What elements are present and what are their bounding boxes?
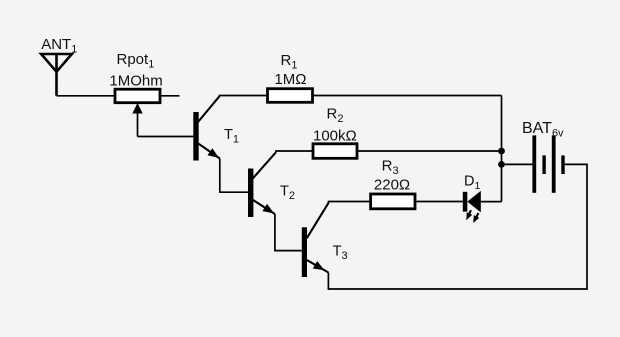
svg-text:T2: T2 <box>280 184 295 203</box>
transistor T1 <box>193 96 220 160</box>
LED D1 light arrows <box>466 210 479 223</box>
antenna ANT1 <box>41 54 72 96</box>
junction dot battery/rail <box>498 161 505 168</box>
svg-text:1MOhm: 1MOhm <box>109 72 162 89</box>
resistor R3 <box>371 194 415 209</box>
svg-text:ANT1: ANT1 <box>41 36 77 56</box>
wire T1 collector to R1 <box>220 95 268 98</box>
wire antenna to Rpot1 <box>57 95 116 97</box>
svg-text:100kΩ: 100kΩ <box>313 127 357 144</box>
wire D1 to right rail <box>481 201 502 203</box>
wire R2 to right rail <box>357 150 502 152</box>
svg-text:R1: R1 <box>281 52 298 72</box>
wire R3 to D1 <box>415 201 463 203</box>
transistor T3 <box>302 203 329 277</box>
wire T2 collector to R2 <box>276 151 313 152</box>
wire T2 emitter to T3 base <box>275 214 302 251</box>
potentiometer Rpot1 <box>115 89 160 103</box>
svg-text:1MΩ: 1MΩ <box>274 71 306 88</box>
wire wiper to T1 base <box>138 136 194 138</box>
right rail wire <box>501 96 503 202</box>
LED D1 <box>463 191 481 213</box>
svg-text:220Ω: 220Ω <box>374 176 410 193</box>
wire T1 emitter to T2 base <box>220 159 248 193</box>
wire R1 to right rail <box>313 95 502 97</box>
svg-text:BAT6v: BAT6v <box>522 120 564 140</box>
resistor R1 <box>268 89 313 103</box>
svg-text:R3: R3 <box>382 157 399 177</box>
svg-text:T1: T1 <box>224 127 239 146</box>
resistor R2 <box>313 144 357 159</box>
junction dot R2/rail <box>498 148 505 155</box>
svg-text:R2: R2 <box>327 106 344 126</box>
transistor T2 <box>248 152 276 217</box>
svg-text:Rpot1: Rpot1 <box>117 51 155 71</box>
wire Rpot1 right stub <box>160 95 180 97</box>
Rpot1 wiper arrow <box>132 103 142 137</box>
wire battery to bottom loop <box>328 164 587 289</box>
wire T3 collector to R3 <box>329 202 371 203</box>
battery BAT1 <box>532 135 564 192</box>
svg-text:T3: T3 <box>333 243 348 262</box>
wire rail to battery <box>502 163 535 165</box>
svg-text:D1: D1 <box>464 173 480 192</box>
